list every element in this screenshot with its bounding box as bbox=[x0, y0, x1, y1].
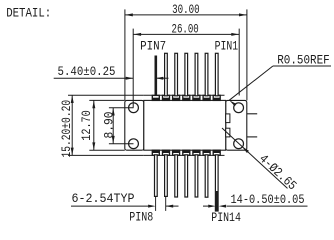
bottom seal band line bbox=[144, 154, 225, 156]
pin base PIN2 bbox=[203, 95, 210, 100]
R0.50REF leader bbox=[273, 65, 331, 67]
dimension 30.00 extension line right bbox=[246, 9, 248, 100]
dimension 26.00 extension line left bbox=[132, 29, 134, 108]
dimension 12.70 extension bottom bbox=[89, 149, 125, 151]
feedthrough box lower bbox=[226, 128, 230, 137]
pin PIN8 bbox=[155, 155, 158, 197]
pin PIN11 bbox=[185, 155, 188, 197]
pin PIN6 bbox=[165, 53, 168, 96]
svg-text:12.70: 12.70 bbox=[79, 110, 94, 141]
pin base PIN10 bbox=[173, 150, 180, 155]
dimension 12.70 line bbox=[93, 100, 95, 150]
pin PIN4 bbox=[185, 53, 188, 96]
dimension 15.20 extension bottom bbox=[68, 154, 144, 156]
pin base PIN11 bbox=[183, 150, 190, 155]
left mounting ear bbox=[125, 100, 144, 150]
pin base PIN14 bbox=[213, 150, 220, 155]
pin base PIN3 bbox=[193, 95, 200, 100]
pin PIN7 bbox=[155, 56, 158, 96]
pin PIN13 bbox=[205, 155, 208, 197]
svg-text:26.00: 26.00 bbox=[172, 22, 199, 37]
mounting hole bottom-right bbox=[234, 139, 244, 149]
mounting hole bottom-left bbox=[129, 139, 139, 149]
dimension 15.20 line bbox=[71, 95, 73, 155]
pin PIN3 bbox=[195, 53, 198, 96]
pin base PIN8 bbox=[152, 150, 159, 155]
right-side fiber tab bottom line bbox=[247, 136, 257, 138]
svg-text:30.00: 30.00 bbox=[172, 2, 200, 17]
svg-text:PIN7: PIN7 bbox=[140, 39, 166, 54]
pin PIN14 lower solid part bbox=[215, 191, 218, 211]
4-diam2.65 leader bbox=[222, 128, 288, 188]
dimension 8.90 extension top bbox=[109, 107, 134, 109]
svg-text:5.40±0.25: 5.40±0.25 bbox=[58, 64, 116, 79]
pin PIN10 bbox=[175, 155, 178, 197]
svg-text:R0.50REF: R0.50REF bbox=[277, 53, 330, 68]
svg-text:PIN14: PIN14 bbox=[211, 210, 241, 225]
right mounting ear bbox=[226, 100, 247, 150]
svg-text:DETAIL:: DETAIL: bbox=[6, 6, 51, 21]
dimension 5.40 line bbox=[54, 77, 134, 79]
pin base PIN1 bbox=[213, 95, 220, 100]
package body bbox=[144, 100, 226, 150]
pin base PIN6 bbox=[163, 95, 170, 100]
pin PIN5 bbox=[175, 53, 178, 96]
pitch tick pin8 bbox=[155, 197, 157, 211]
pin base PIN7 bbox=[152, 95, 159, 100]
right-side fiber tab top line bbox=[247, 113, 257, 115]
feedthrough box upper bbox=[226, 114, 230, 123]
pin PIN12 bbox=[195, 155, 198, 197]
pitch tick pin9 bbox=[165, 197, 167, 211]
dimension 8.90 line bbox=[112, 108, 114, 144]
mounting hole top-left bbox=[129, 103, 139, 113]
dimension 8.90 extension bottom bbox=[109, 143, 134, 145]
dimension 12.70 extension top bbox=[89, 99, 125, 101]
pin PIN14 bbox=[215, 155, 218, 211]
dimension 15.20 extension top bbox=[68, 94, 144, 96]
dimension 14-0.50 line left bbox=[203, 205, 208, 207]
dimension 6-2.54TYP line bbox=[71, 205, 148, 207]
dimension 30.00 extension line left bbox=[124, 9, 126, 100]
svg-text:15.20±0.20: 15.20±0.20 bbox=[59, 100, 74, 158]
svg-text:14-0.50±0.05: 14-0.50±0.05 bbox=[231, 192, 305, 207]
pin PIN2 bbox=[205, 53, 208, 96]
svg-text:6-2.54TYP: 6-2.54TYP bbox=[72, 191, 135, 206]
pin PIN1 bbox=[215, 53, 218, 96]
pin base PIN13 bbox=[203, 150, 210, 155]
top seal band line bbox=[144, 94, 225, 96]
svg-text:8.90: 8.90 bbox=[102, 112, 117, 139]
svg-text:PIN1: PIN1 bbox=[215, 39, 239, 54]
dimension 14-0.50 line right bbox=[227, 205, 308, 207]
pin base PIN4 bbox=[183, 95, 190, 100]
dimension 26.00 extension line right bbox=[238, 29, 240, 96]
pin base PIN5 bbox=[173, 95, 180, 100]
svg-text:PIN8: PIN8 bbox=[129, 210, 153, 225]
pin base PIN9 bbox=[163, 150, 170, 155]
dimension 30.00 line bbox=[125, 14, 247, 16]
mounting hole top-right bbox=[234, 103, 244, 113]
pin base PIN12 bbox=[193, 150, 200, 155]
dimension 26.00 line bbox=[133, 33, 239, 35]
pin PIN9 bbox=[165, 155, 168, 197]
